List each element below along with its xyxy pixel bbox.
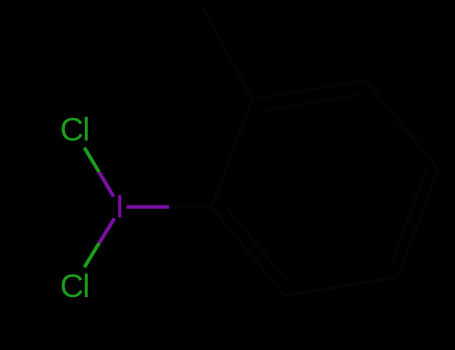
bond I-C1 (iodine half, purple) xyxy=(126,205,169,208)
wire: ring bond C2-C3 xyxy=(252,80,365,99)
wire: double bond inner line C2-C3 xyxy=(265,95,358,111)
bond I-Cl(bottom) : chlorine half green xyxy=(84,243,99,267)
bond Cl(top)-I : chlorine half green xyxy=(84,148,99,172)
benzene ring C1-C6 (faint near-black) xyxy=(203,8,438,296)
svg-text:Cl: Cl xyxy=(60,267,89,304)
wire: ring bond C4-C5 xyxy=(398,169,438,277)
wire: double bond inner line C6-C1 xyxy=(227,208,287,281)
wire: double bond inner line C4-C5 xyxy=(392,173,425,261)
svg-text:Cl: Cl xyxy=(60,111,89,148)
wire: ring bond C3-C4 xyxy=(365,80,438,169)
svg-text:I: I xyxy=(115,189,124,225)
bond Cl(top)-I : iodine half purple xyxy=(99,172,114,197)
wire: ring bond C6-C1 xyxy=(212,207,285,296)
bond I-C1 (carbon half, near-black) xyxy=(169,205,212,208)
wire: methyl bond from C2 xyxy=(203,8,252,99)
wire: ring bond C1-C2 xyxy=(212,99,252,207)
wire: ring bond C5-C6 xyxy=(285,277,398,296)
bond I-Cl(bottom) : iodine half purple xyxy=(99,218,114,243)
